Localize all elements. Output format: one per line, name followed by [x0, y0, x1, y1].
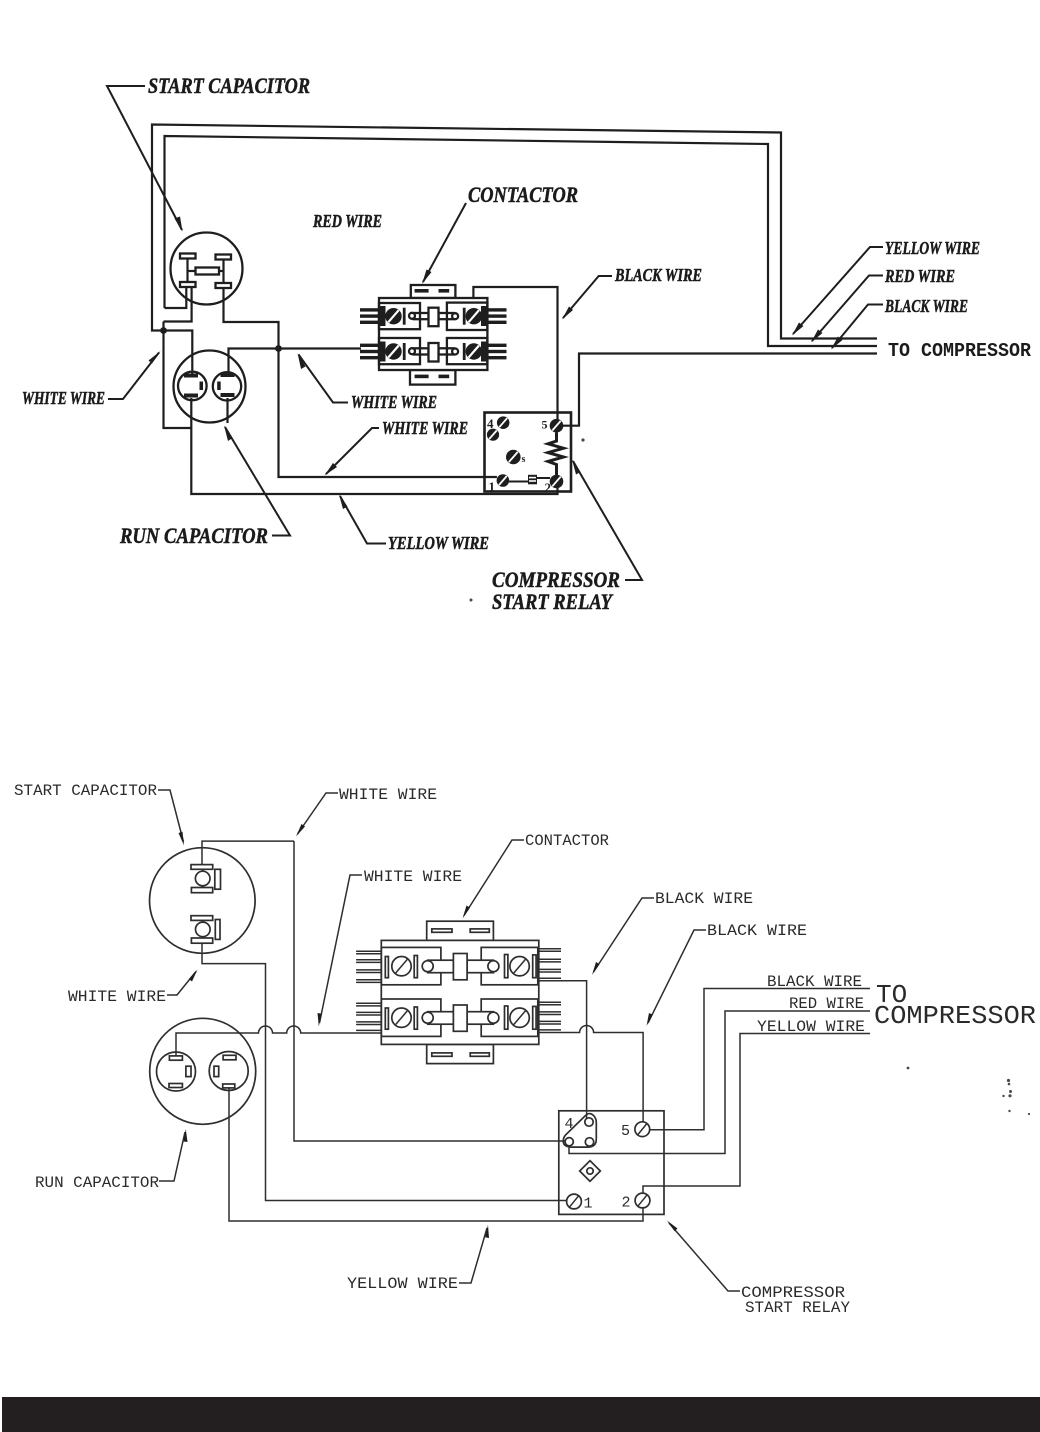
svg-text:BLACK WIRE: BLACK WIRE — [884, 296, 968, 316]
start capacitor (top diagram) — [171, 233, 243, 305]
svg-text:s: s — [522, 454, 526, 465]
wire start-capacitor left stem to inner loop — [165, 287, 187, 308]
label WHITE WIRE (W1) — [298, 353, 438, 412]
svg-text:YELLOW WIRE: YELLOW WIRE — [885, 238, 980, 258]
wire black2: contactor row2 right fin to relay 5 with hop — [539, 1026, 643, 1123]
wire run-capacitor left top stem — [164, 331, 193, 374]
wire contactor to relay-5 (black) — [473, 287, 557, 419]
svg-text:5: 5 — [621, 1123, 630, 1140]
svg-text:TO COMPRESSOR: TO COMPRESSOR — [888, 340, 1032, 362]
row1 screws and bridge — [385, 308, 482, 327]
svg-text:CONTACTOR: CONTACTOR — [525, 832, 609, 850]
svg-text:WHITE WIRE: WHITE WIRE — [22, 388, 105, 408]
wire start-cap top to long white vertical — [202, 841, 294, 865]
label COMPRESSOR START RELAY (bottom) — [667, 1221, 850, 1318]
svg-text:COMPRESSOR: COMPRESSOR — [874, 1001, 1036, 1031]
start capacitor (bottom diagram) — [150, 848, 256, 954]
compressor start relay (top diagram) — [485, 413, 572, 496]
relay screw terminal 4 — [497, 416, 510, 429]
row2 right fins — [481, 342, 507, 362]
label RUN CAPACITOR (top) — [119, 426, 290, 549]
label TO COMPRESSOR (bottom, large) — [874, 980, 1036, 1031]
wire yellow: run-cap bottom to relay 2 — [191, 398, 557, 494]
run capacitor (top diagram) — [174, 351, 246, 423]
contactor (top diagram) — [360, 285, 507, 385]
wire outer loop (yellow wire to compressor) — [152, 125, 877, 339]
contactor (bottom diagram) — [356, 921, 561, 1063]
wire start-capacitor left stem 2 — [164, 287, 192, 322]
svg-text:YELLOW WIRE: YELLOW WIRE — [347, 1275, 458, 1293]
svg-text:RUN CAPACITOR: RUN CAPACITOR — [119, 523, 268, 548]
wire relay-5 to compressor (black wire) — [557, 354, 877, 426]
label BLACK WIRE (right) — [831, 296, 968, 350]
label RUN CAPACITOR (bottom) — [35, 1129, 188, 1192]
junction node dot A — [160, 327, 167, 334]
wire inner loop (red wire to compressor) — [165, 136, 878, 346]
svg-text:WHITE WIRE: WHITE WIRE — [351, 392, 437, 412]
wire start-capacitor right stem down to junction — [224, 287, 497, 477]
row2 screws and bridge — [385, 1005, 536, 1031]
label CONTACTOR (top) — [422, 182, 578, 284]
label WHITE WIRE (bottom top) — [296, 786, 437, 837]
label WHITE WIRE (far left) — [22, 351, 161, 408]
relay screw terminal 2 — [550, 475, 564, 489]
wire start-cap bottom to relay 1 — [202, 943, 567, 1200]
svg-text:RED WIRE: RED WIRE — [884, 266, 955, 286]
run capacitor (bottom diagram) — [150, 1018, 256, 1124]
relay screw terminal 5 — [635, 1122, 650, 1137]
label BLACK WIRE (bottom #1) — [592, 890, 753, 975]
svg-text:CONTACTOR: CONTACTOR — [468, 182, 578, 207]
label YELLOW WIRE (lower) — [339, 495, 489, 554]
svg-text:BLACK WIRE: BLACK WIRE — [707, 922, 807, 940]
label RED WIRE (right) — [811, 266, 955, 343]
svg-text:1: 1 — [584, 1196, 593, 1213]
relay diamond — [580, 1161, 601, 1182]
label START CAPACITOR (top) — [107, 73, 310, 232]
label WHITE WIRE (bottom mid) — [318, 868, 463, 1027]
relay screw terminal 1 — [497, 474, 510, 487]
row2 screws and bridge — [385, 343, 482, 362]
svg-text:2: 2 — [622, 1195, 631, 1212]
label COMPRESSOR START RELAY (top) — [492, 460, 642, 615]
row2 left fins — [360, 342, 386, 362]
compressor start relay (bottom diagram) — [559, 1111, 664, 1215]
svg-text:START RELAY: START RELAY — [492, 589, 614, 614]
wire relay 4 to compressor (red) — [569, 1011, 870, 1154]
svg-text:START CAPACITOR: START CAPACITOR — [148, 73, 310, 98]
row1 left fins — [360, 306, 386, 326]
relay contact square — [509, 481, 528, 483]
scan specks — [470, 438, 1031, 1115]
svg-text:WHITE WIRE: WHITE WIRE — [364, 868, 462, 886]
row1 left fins — [356, 951, 381, 982]
svg-text:RED WIRE: RED WIRE — [789, 995, 864, 1013]
label YELLOW WIRE (right) — [792, 238, 980, 336]
label START CAPACITOR (bottom) — [14, 782, 184, 846]
relay coil screw s — [506, 450, 521, 465]
row1 right fins — [539, 949, 561, 979]
wire relay 2 to compressor (yellow) — [643, 1034, 870, 1194]
svg-text:1: 1 — [489, 479, 496, 494]
wire run-cap right bottom stem — [226, 398, 228, 423]
svg-text:BLACK WIRE: BLACK WIRE — [655, 890, 753, 908]
svg-text:WHITE WIRE: WHITE WIRE — [339, 786, 437, 804]
row1 screws and bridge — [385, 954, 536, 980]
relay 4 terminal plate — [563, 1114, 596, 1148]
svg-text:WHITE WIRE: WHITE WIRE — [382, 418, 468, 438]
wire yellow: run-cap right to relay 2 — [229, 1088, 643, 1221]
row2 left fins — [356, 1003, 381, 1030]
svg-text:RED WIRE: RED WIRE — [312, 211, 382, 231]
relay resistor — [548, 433, 564, 476]
footer black bar — [2, 1397, 1040, 1432]
svg-text:WHITE WIRE: WHITE WIRE — [68, 988, 166, 1006]
svg-text:BLACK WIRE: BLACK WIRE — [614, 265, 702, 285]
label WHITE WIRE (bottom left) — [68, 970, 198, 1007]
svg-text:RUN CAPACITOR: RUN CAPACITOR — [35, 1174, 159, 1192]
svg-text:BLACK WIRE: BLACK WIRE — [767, 973, 862, 991]
wire run-cap left to contactor row2 with hops — [176, 1026, 381, 1056]
wire black1: contactor row1 right fin to relay 4 top — [539, 981, 587, 1119]
wire left vertical bus — [164, 322, 192, 429]
label BLACK WIRE (bottom #2) — [647, 922, 808, 1026]
wire long white vertical to relay 4 — [294, 841, 566, 1141]
svg-text:5: 5 — [542, 418, 548, 432]
row2 right fins — [539, 1002, 561, 1030]
label WHITE WIRE (W2) — [325, 418, 469, 476]
relay screw terminal 5 — [550, 419, 564, 433]
wire rail run-cap right to contactor row2 — [229, 349, 362, 377]
svg-text:START RELAY: START RELAY — [745, 1299, 850, 1317]
label BLACK WIRE (top, contactor-relay wire) — [562, 265, 702, 320]
svg-text:YELLOW WIRE: YELLOW WIRE — [388, 533, 489, 553]
relay screw terminal 2 — [635, 1193, 650, 1208]
junction node dot B — [275, 345, 282, 352]
svg-text:YELLOW WIRE: YELLOW WIRE — [757, 1018, 865, 1036]
wire relay 5 to compressor (black) — [650, 989, 870, 1130]
label CONTACTOR (bottom) — [463, 832, 610, 919]
row1 right fins — [481, 306, 507, 326]
label YELLOW WIRE (bottom) — [347, 1225, 489, 1293]
svg-text:START CAPACITOR: START CAPACITOR — [14, 782, 157, 800]
